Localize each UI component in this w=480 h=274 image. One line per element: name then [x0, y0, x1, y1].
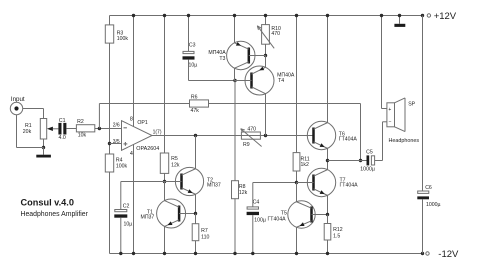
svg-text:Consul v.4.0: Consul v.4.0 — [21, 198, 74, 208]
svg-text:C3: C3 — [189, 42, 196, 48]
svg-text:C1: C1 — [59, 118, 66, 124]
svg-text:1k2: 1k2 — [301, 162, 309, 168]
svg-text:T4: T4 — [278, 78, 284, 84]
svg-text:12k: 12k — [239, 190, 248, 196]
svg-text:10µ: 10µ — [189, 63, 198, 69]
svg-text:110: 110 — [201, 235, 209, 241]
svg-text:100k: 100k — [117, 36, 129, 42]
svg-text:R5: R5 — [171, 156, 178, 162]
svg-text:1000µ: 1000µ — [426, 202, 441, 208]
svg-text:МП37: МП37 — [207, 183, 221, 189]
svg-text:C6: C6 — [425, 185, 432, 191]
svg-text:МП37: МП37 — [141, 215, 155, 221]
svg-text:C4: C4 — [253, 199, 260, 205]
svg-text:12k: 12k — [171, 162, 180, 168]
svg-text:470: 470 — [247, 127, 256, 133]
svg-text:R6: R6 — [191, 95, 198, 101]
svg-text:1.5: 1.5 — [333, 234, 340, 240]
svg-text:R7: R7 — [201, 228, 208, 234]
svg-text:1000µ: 1000µ — [360, 167, 375, 173]
svg-text:−: − — [389, 120, 392, 126]
svg-text:100µ: 100µ — [254, 217, 266, 223]
svg-text:100k: 100k — [116, 163, 128, 169]
svg-text:470: 470 — [271, 31, 280, 37]
svg-text:C2: C2 — [123, 204, 130, 210]
svg-text:OPA2604: OPA2604 — [136, 146, 159, 152]
svg-text:C5: C5 — [366, 149, 373, 155]
svg-text:-12V: -12V — [438, 249, 459, 260]
svg-text:ГТ404А: ГТ404А — [339, 136, 358, 142]
svg-text:20k: 20k — [23, 129, 32, 135]
svg-text:4: 4 — [130, 151, 133, 157]
svg-text:4.0: 4.0 — [59, 135, 66, 141]
svg-text:2/6: 2/6 — [113, 123, 120, 129]
svg-text:OP1: OP1 — [137, 120, 147, 126]
svg-text:SP: SP — [408, 101, 415, 107]
svg-text:10µ: 10µ — [124, 222, 133, 228]
svg-text:Headphones Amplifier: Headphones Amplifier — [21, 211, 89, 218]
svg-text:R12: R12 — [333, 227, 343, 233]
svg-text:1(7): 1(7) — [153, 129, 162, 135]
svg-text:10k: 10k — [78, 133, 87, 139]
svg-text:T3: T3 — [219, 56, 225, 62]
svg-text:+12V: +12V — [434, 11, 457, 22]
svg-text:47k: 47k — [191, 108, 200, 114]
svg-text:ГТ404А: ГТ404А — [340, 182, 359, 188]
svg-text:R2: R2 — [77, 119, 84, 125]
svg-text:R9: R9 — [243, 142, 250, 148]
svg-text:8: 8 — [130, 116, 133, 122]
svg-text:+: + — [388, 107, 391, 113]
svg-text:ГТ404А: ГТ404А — [268, 216, 287, 222]
svg-text:Headphones: Headphones — [389, 138, 420, 144]
